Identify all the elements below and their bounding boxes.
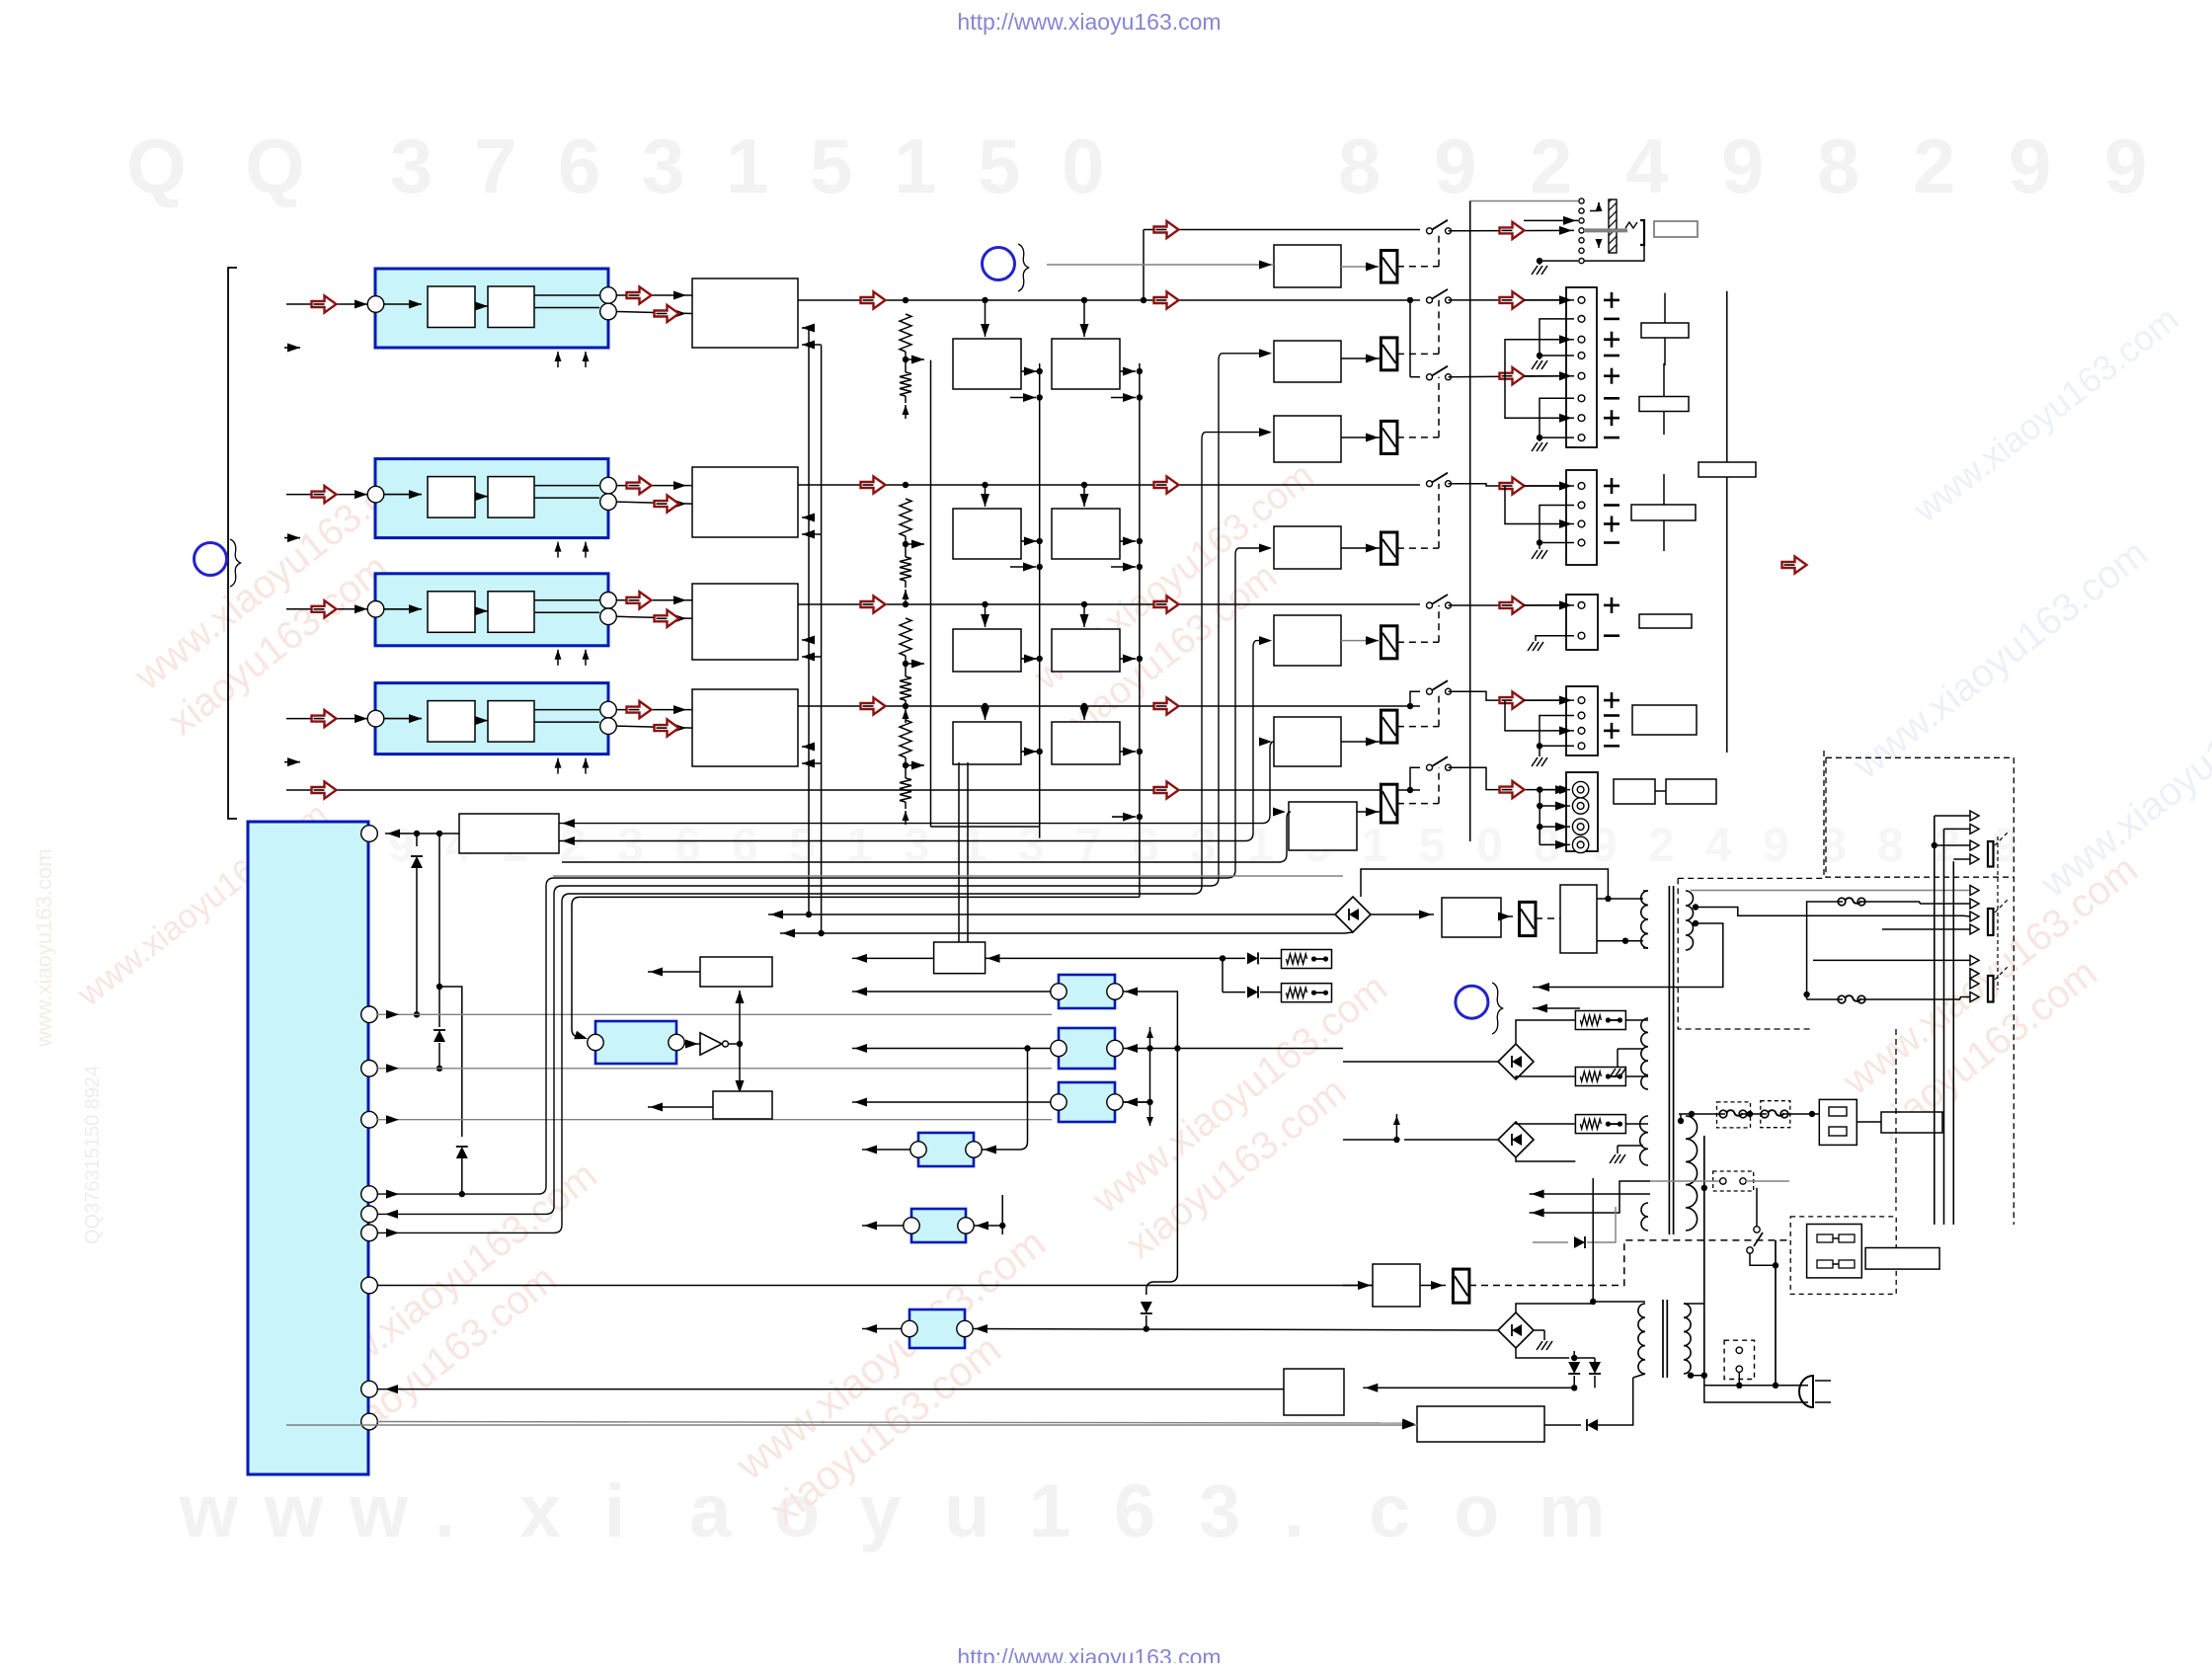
svg-text:3: 3 bbox=[1190, 820, 1217, 872]
svg-text:www.xiaoyu163.com: www.xiaoyu163.com bbox=[32, 848, 56, 1048]
svg-text:8: 8 bbox=[1877, 820, 1904, 872]
svg-text:http://www.xiaoyu163.com: http://www.xiaoyu163.com bbox=[957, 1644, 1221, 1663]
svg-text:2: 2 bbox=[1913, 122, 1955, 209]
svg-text:http://www.xiaoyu163.com: http://www.xiaoyu163.com bbox=[957, 9, 1221, 35]
svg-text:8: 8 bbox=[1817, 122, 1859, 209]
svg-text:5: 5 bbox=[810, 122, 852, 209]
svg-text:9: 9 bbox=[2009, 122, 2051, 209]
svg-text:w: w bbox=[349, 1469, 409, 1553]
svg-text:u: u bbox=[944, 1469, 989, 1553]
svg-text:5: 5 bbox=[1419, 820, 1446, 872]
svg-text:2: 2 bbox=[1530, 122, 1572, 209]
svg-text:6: 6 bbox=[1114, 1469, 1155, 1553]
svg-text:7: 7 bbox=[1075, 820, 1102, 872]
svg-text:.: . bbox=[1284, 1469, 1304, 1553]
svg-text:x: x bbox=[519, 1469, 561, 1553]
svg-text:0: 0 bbox=[1476, 820, 1503, 872]
svg-text:.: . bbox=[434, 1469, 455, 1553]
svg-text:1: 1 bbox=[961, 820, 987, 872]
svg-text:6: 6 bbox=[1133, 820, 1159, 872]
svg-text:9: 9 bbox=[1763, 820, 1789, 872]
svg-text:2: 2 bbox=[1648, 820, 1675, 872]
svg-text:m: m bbox=[1539, 1469, 1606, 1553]
svg-text:1: 1 bbox=[894, 122, 936, 209]
svg-text:7: 7 bbox=[474, 122, 516, 209]
svg-text:0: 0 bbox=[1062, 122, 1104, 209]
svg-text:6: 6 bbox=[558, 122, 600, 209]
svg-text:9: 9 bbox=[1721, 122, 1764, 209]
svg-text:1: 1 bbox=[1029, 1469, 1070, 1553]
svg-text:4: 4 bbox=[1705, 820, 1732, 872]
svg-text:5: 5 bbox=[978, 122, 1020, 209]
svg-text:5: 5 bbox=[789, 820, 816, 872]
svg-text:Q: Q bbox=[245, 122, 305, 209]
svg-text:3: 3 bbox=[642, 122, 684, 209]
svg-text:3: 3 bbox=[904, 820, 930, 872]
svg-text:4: 4 bbox=[1625, 122, 1668, 209]
svg-text:1: 1 bbox=[726, 122, 768, 209]
svg-text:3: 3 bbox=[617, 820, 644, 872]
svg-text:3: 3 bbox=[1199, 1469, 1240, 1553]
svg-text:3: 3 bbox=[390, 122, 433, 209]
svg-text:w: w bbox=[264, 1469, 324, 1553]
svg-text:2: 2 bbox=[560, 820, 587, 872]
svg-text:6: 6 bbox=[674, 820, 701, 872]
svg-text:c: c bbox=[1369, 1469, 1410, 1553]
svg-text:9: 9 bbox=[2104, 122, 2147, 209]
svg-text:1: 1 bbox=[1362, 820, 1388, 872]
svg-text:3: 3 bbox=[1018, 820, 1045, 872]
svg-text:QQ376315150 8924: QQ376315150 8924 bbox=[82, 1066, 104, 1244]
svg-text:8: 8 bbox=[1338, 122, 1381, 209]
svg-text:i: i bbox=[604, 1469, 625, 1553]
svg-text:6: 6 bbox=[732, 820, 758, 872]
svg-text:a: a bbox=[689, 1469, 732, 1553]
svg-text:1: 1 bbox=[846, 820, 873, 872]
svg-text:y: y bbox=[859, 1469, 901, 1553]
svg-text:w: w bbox=[179, 1469, 239, 1553]
svg-text:Q: Q bbox=[126, 122, 187, 209]
svg-text:9: 9 bbox=[388, 820, 415, 872]
svg-text:9: 9 bbox=[1434, 122, 1476, 209]
svg-text:1: 1 bbox=[1247, 820, 1274, 872]
svg-text:o: o bbox=[1454, 1469, 1499, 1553]
